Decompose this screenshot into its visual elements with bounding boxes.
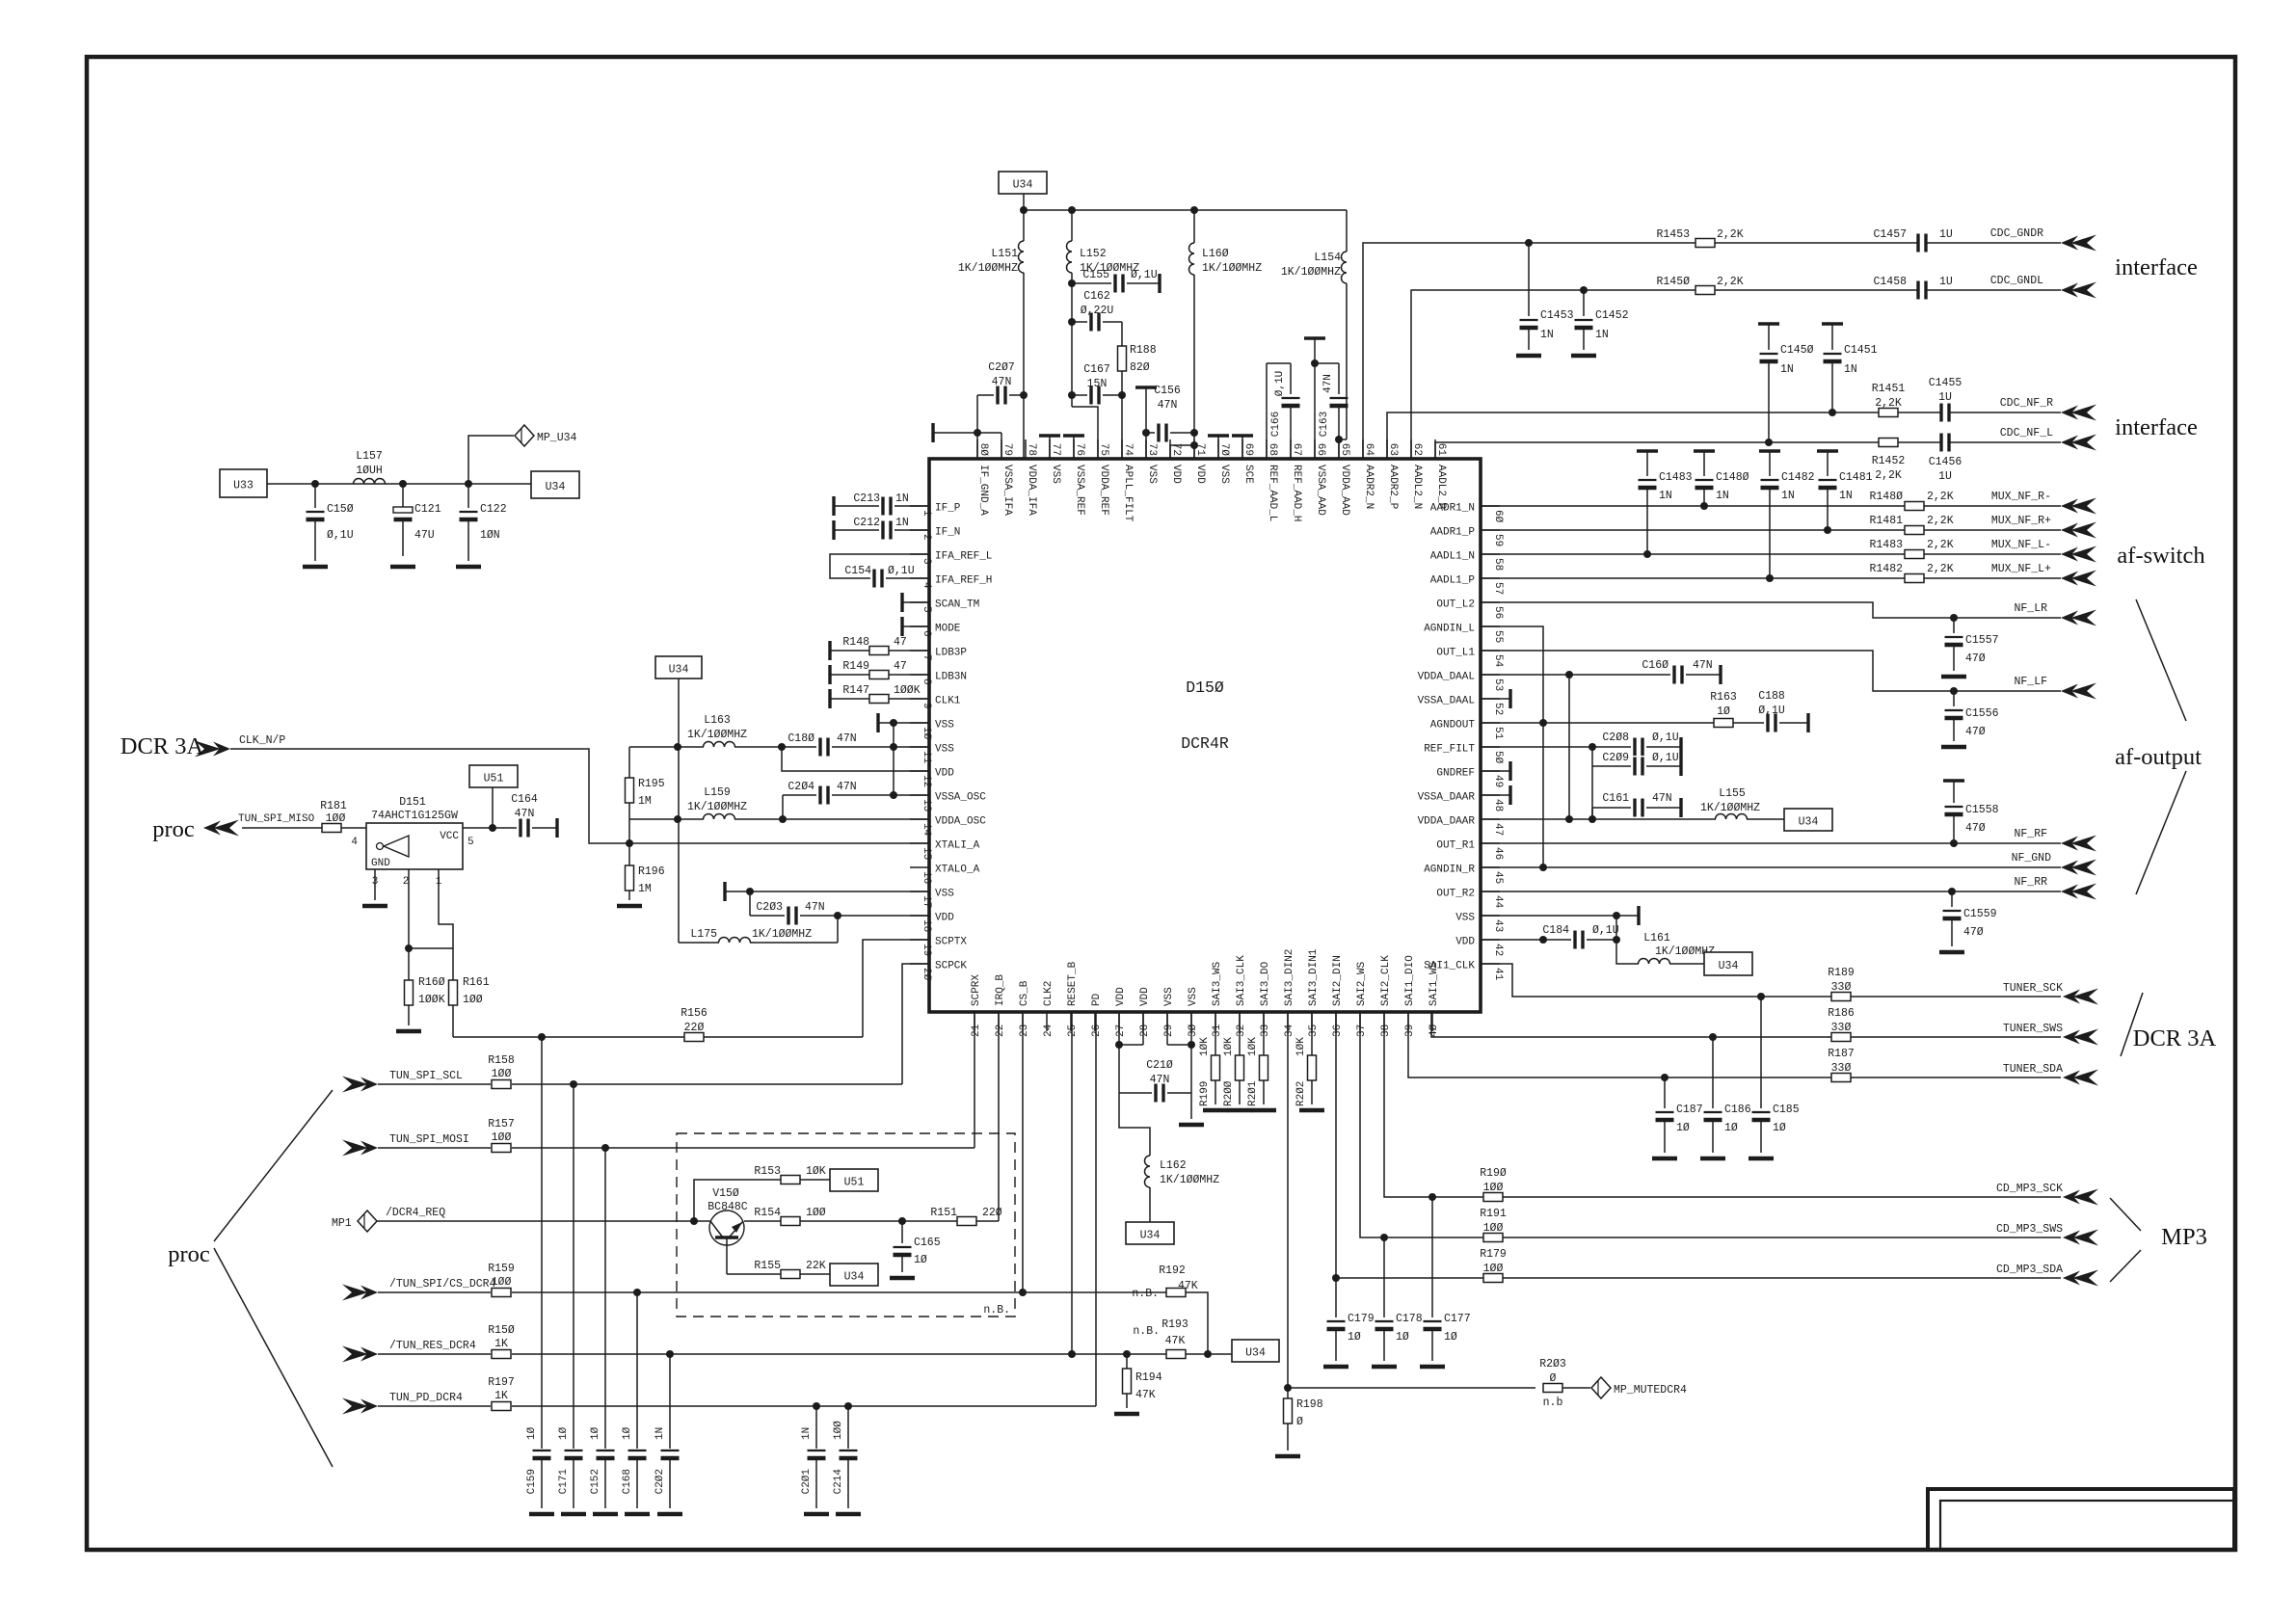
inductor L152 1K/100MHZ [1067, 210, 1140, 407]
svg-text:11: 11 [921, 751, 932, 764]
svg-text:48: 48 [1492, 799, 1504, 811]
svg-text:Ø,1U: Ø,1U [888, 565, 915, 577]
wire CLK_N/P to XTALI_A pin15 [230, 749, 929, 843]
wire /TUN_SPI/CS_DCR4 [512, 1291, 1166, 1293]
node R194 branch [1123, 1350, 1131, 1358]
svg-text:U34: U34 [1245, 1347, 1266, 1360]
svg-text:VSSA_REF: VSSA_REF [1074, 465, 1085, 516]
svg-text:45: 45 [1492, 871, 1504, 884]
svg-text:Ø,22U: Ø,22U [1081, 305, 1114, 317]
svg-text:1ØØ: 1ØØ [492, 1068, 512, 1080]
svg-text:1N: 1N [801, 1427, 813, 1440]
svg-text:1K/1ØØMHZ: 1K/1ØØMHZ [687, 729, 747, 741]
svg-text:PD: PD [1091, 993, 1103, 1006]
inductor L157 10UH [354, 450, 386, 484]
svg-text:47Ø: 47Ø [1965, 726, 1986, 738]
wire NF_GND (pin45 AGNDIN_R) [1481, 866, 2061, 868]
node L151/C207 [1020, 391, 1028, 399]
svg-text:1ØK: 1ØK [806, 1165, 826, 1178]
svg-text:VDD: VDD [935, 913, 954, 924]
svg-text:R187: R187 [1828, 1048, 1855, 1060]
svg-text:R198: R198 [1296, 1398, 1323, 1411]
svg-text:R1483: R1483 [1869, 539, 1903, 551]
svg-text:1Ø: 1Ø [526, 1426, 538, 1440]
svg-text:C148Ø: C148Ø [1716, 471, 1749, 484]
svg-text:C15Ø: C15Ø [327, 503, 354, 516]
svg-text:8Ø: 8Ø [977, 443, 989, 457]
node DAAR C209 [1589, 815, 1596, 823]
capacitor C1451 1N [1822, 324, 1878, 412]
svg-text:1N: 1N [1540, 329, 1554, 341]
svg-text:V15Ø: V15Ø [712, 1187, 739, 1200]
svg-text:U34: U34 [1140, 1230, 1161, 1242]
svg-text:1ØK: 1ØK [1247, 1037, 1259, 1056]
svg-text:LDB3P: LDB3P [935, 648, 967, 659]
terminal VSSA_AAD pin 66 [1304, 338, 1325, 459]
wire D151 pin2 to R160 [408, 869, 410, 948]
capacitor C161 47N [1592, 792, 1681, 819]
svg-text:37: 37 [1356, 1024, 1368, 1037]
svg-text:XTALO_A: XTALO_A [935, 865, 980, 876]
wire TUN_SPI_MOSI [512, 1012, 974, 1148]
terminal C209 [1679, 757, 1682, 776]
wire VDDA_DAAL (pin53) [1481, 674, 1670, 676]
node RES pin25 [1068, 1350, 1076, 1358]
svg-text:VSS: VSS [935, 889, 954, 900]
IC D150 DCR4R [910, 439, 1504, 1037]
node VCC/U51 [489, 824, 496, 832]
svg-text:C188: C188 [1758, 690, 1785, 703]
svg-text:U33: U33 [233, 480, 254, 492]
svg-text:TUNER_SDA: TUNER_SDA [2003, 1063, 2063, 1076]
label TUNER_SDA [2003, 1063, 2063, 1076]
capacitor C1481 1N [1817, 451, 1873, 530]
wire U34 rail vertical [678, 678, 680, 943]
inductor L161 1K/100MHZ [1616, 932, 1715, 964]
capacitor C188 0,1U [1758, 690, 1808, 733]
svg-text:2Ø: 2Ø [921, 968, 932, 981]
svg-text:L151: L151 [991, 248, 1018, 260]
svg-text:Ø,1U: Ø,1U [327, 529, 354, 542]
label CDC_GNDR [1990, 227, 2043, 240]
resistor R1452 2,2K [1872, 439, 1906, 483]
svg-text:6Ø: 6Ø [1492, 510, 1504, 523]
svg-text:VSS: VSS [1163, 987, 1175, 1006]
svg-text:C1452: C1452 [1595, 309, 1629, 322]
svg-text:57: 57 [1492, 582, 1504, 595]
module box U34 (U33 rail) [531, 471, 579, 498]
svg-text:69: 69 [1242, 443, 1254, 456]
svg-text:LDB3N: LDB3N [935, 672, 967, 683]
terminal SCAN_TM pin5 [902, 593, 929, 612]
label NF_GND [2012, 852, 2052, 865]
wire R153 branch [694, 1180, 781, 1221]
svg-text:C2Ø2: C2Ø2 [654, 1469, 666, 1494]
inductor L159 1K/100MHZ (pin14) [629, 786, 929, 819]
capacitor C1450 1N [1758, 324, 1814, 442]
terminal pin 70 [1208, 436, 1229, 459]
svg-text:12: 12 [921, 775, 932, 787]
svg-text:47K: 47K [1178, 1280, 1198, 1292]
arrow proc MISO [203, 820, 239, 837]
terminal C188 [1806, 713, 1809, 732]
svg-text:1ØØ: 1ØØ [492, 1276, 512, 1289]
svg-text:1U: 1U [1939, 276, 1953, 288]
svg-text:VDD: VDD [1139, 987, 1151, 1006]
node C1451/NF_R [1829, 409, 1836, 416]
svg-text:1N: 1N [1595, 329, 1609, 341]
node C1558/NF_RF [1950, 839, 1958, 847]
capacitor C1452 1N [1571, 290, 1629, 356]
arrow CDC_NF_R [2061, 405, 2096, 421]
wire R156 net [453, 1036, 863, 1038]
arrow TUNER_SCK [2063, 989, 2098, 1005]
node pin 73 [1142, 429, 1150, 437]
svg-text:1N: 1N [654, 1427, 666, 1440]
resistor R193 47K n.B. [1133, 1318, 1188, 1359]
svg-text:GND: GND [371, 858, 390, 869]
svg-text:1ØØ: 1ØØ [1483, 1222, 1504, 1235]
bracket MP3 [2110, 1198, 2141, 1282]
capacitor C163 47N (pins 66-65) [1315, 363, 1349, 459]
svg-text:n.B.: n.B. [983, 1304, 1010, 1317]
svg-text:IF_GND_A: IF_GND_A [977, 465, 989, 516]
svg-text:C18Ø: C18Ø [788, 732, 814, 745]
svg-text:MODE: MODE [935, 624, 961, 635]
svg-text:VDD: VDD [935, 768, 954, 780]
node R198/R203 [1284, 1384, 1292, 1392]
wire TUN_SPI_SCL [512, 1083, 902, 1085]
svg-text:R188: R188 [1130, 344, 1157, 357]
svg-text:Ø,1U: Ø,1U [1758, 705, 1785, 717]
wire TUNER_SWS [1431, 1012, 2061, 1037]
svg-text:36: 36 [1332, 1024, 1344, 1037]
terminal pin 76 [1063, 436, 1084, 459]
svg-text:MP1: MP1 [332, 1217, 352, 1230]
node AGNDIN_R [1539, 864, 1547, 871]
svg-text:AADL1_N: AADL1_N [1430, 551, 1475, 563]
node L152/C167 [1068, 391, 1076, 399]
capacitor C187 10 [1652, 1078, 1703, 1158]
wire R193 to U34 [1208, 1353, 1232, 1355]
label DCR 3A (left) [120, 733, 204, 759]
svg-text:NF_GND: NF_GND [2012, 852, 2052, 865]
svg-text:47K: 47K [1135, 1389, 1156, 1401]
svg-text:67: 67 [1291, 443, 1302, 456]
svg-text:n.b: n.b [1543, 1397, 1563, 1409]
svg-text:NF_LF: NF_LF [2014, 676, 2047, 688]
svg-text:49: 49 [1492, 775, 1504, 787]
svg-text:58: 58 [1492, 558, 1504, 571]
svg-text:74: 74 [1122, 443, 1134, 457]
svg-text:VSSA_OSC: VSSA_OSC [935, 792, 986, 804]
svg-text:R16Ø: R16Ø [418, 976, 445, 989]
svg-text:C159: C159 [526, 1469, 538, 1494]
svg-text:R163: R163 [1710, 691, 1737, 704]
svg-text:47N: 47N [992, 376, 1012, 388]
resistor R181 100 [320, 800, 366, 833]
svg-text:C1456: C1456 [1929, 456, 1962, 468]
terminal C164 [555, 818, 558, 838]
node C150 [311, 480, 319, 488]
label CLK_N/P [239, 734, 285, 747]
inductor L154 1K/100MHZ [1281, 210, 1347, 439]
module box U51 (R153) [830, 1169, 878, 1191]
node MUX_NF_L+ cap [1766, 574, 1774, 582]
ground R198 [1275, 1454, 1300, 1459]
svg-text:22Ø: 22Ø [684, 1022, 705, 1034]
wire top supply bus [1024, 194, 1347, 210]
svg-text:1ØØK: 1ØØK [894, 684, 921, 697]
svg-text:TUN_PD_DCR4: TUN_PD_DCR4 [389, 1392, 463, 1404]
svg-text:AADR2_P: AADR2_P [1387, 465, 1399, 510]
svg-text:C2Ø8: C2Ø8 [1602, 732, 1629, 744]
svg-text:L16Ø: L16Ø [1202, 248, 1229, 260]
svg-text:1ØUH: 1ØUH [356, 465, 383, 477]
arrow CD_MP3_SDA [2063, 1270, 2098, 1287]
wire REF_FILT to VDDA_DAAR [1591, 766, 1593, 819]
svg-text:AGNDIN_L: AGNDIN_L [1424, 624, 1475, 635]
svg-text:76: 76 [1074, 443, 1085, 456]
wire CDC_GNDR (pin64) [1363, 243, 2061, 459]
label af-switch [2117, 543, 2204, 569]
svg-text:R151: R151 [930, 1207, 957, 1219]
svg-text:CDC_NF_L: CDC_NF_L [2000, 427, 2053, 439]
svg-text:DCR4R: DCR4R [1181, 734, 1229, 753]
transistor V150 BC848C [707, 1187, 748, 1274]
resistor R190 100 [1480, 1167, 1507, 1202]
svg-text:1ØØ: 1ØØ [326, 812, 346, 825]
node L152/C162 [1068, 318, 1076, 326]
capacitor C178 10 [1372, 1237, 1423, 1367]
svg-text:R161: R161 [463, 976, 490, 989]
node C178 branch [1380, 1234, 1388, 1241]
resistor R201 10K [1247, 1012, 1276, 1110]
svg-text:52: 52 [1492, 703, 1504, 715]
svg-text:C162: C162 [1083, 290, 1110, 303]
node C171 branch [570, 1080, 577, 1088]
svg-text:AADL2_N: AADL2_N [1411, 465, 1423, 509]
svg-text:1Ø: 1Ø [1396, 1331, 1409, 1344]
svg-text:7: 7 [921, 654, 932, 661]
svg-text:1U: 1U [1938, 470, 1952, 483]
terminal VSS43 [1637, 906, 1640, 925]
inductor L155 1K/100MHZ [1700, 787, 1784, 819]
svg-text:22: 22 [995, 1024, 1006, 1037]
svg-text:SCAN_TM: SCAN_TM [935, 599, 979, 611]
wire NF_RR (pin44 OUT_R2) [1481, 891, 2061, 892]
svg-text:AADL1_P: AADL1_P [1430, 575, 1476, 587]
terminal pin 77 [1039, 436, 1060, 459]
wire NF_RF (pin46 OUT_R1) [1481, 842, 2061, 844]
svg-text:C16Ø: C16Ø [1642, 659, 1669, 672]
arrow CDC_GNDR [2061, 235, 2096, 252]
wire U33 rail [267, 483, 531, 485]
buffer D151 74AHCT1G125GW [351, 796, 473, 888]
arrow NF_RF [2061, 836, 2096, 852]
wire NF_LF (pin54 OUT_L1) [1481, 651, 2061, 691]
svg-text:47N: 47N [1693, 659, 1713, 672]
node C1453 [1525, 239, 1533, 247]
svg-text:R153: R153 [754, 1165, 781, 1178]
svg-text:C1481: C1481 [1839, 471, 1873, 484]
svg-text:AADR1_P: AADR1_P [1430, 527, 1476, 539]
svg-text:13: 13 [921, 799, 932, 811]
arrow TUNER_SWS [2063, 1029, 2098, 1046]
svg-text:75: 75 [1098, 443, 1109, 456]
capacitor C159 10 [526, 1037, 554, 1514]
ground R194 [1114, 1412, 1139, 1417]
node MUX_NF_R+ cap [1824, 526, 1831, 534]
capacitor C212 1N (pin2) [834, 517, 929, 541]
svg-text:SAI1_WS: SAI1_WS [1428, 961, 1440, 1006]
svg-text:78: 78 [1026, 443, 1037, 456]
svg-text:25: 25 [1067, 1024, 1079, 1037]
label CDC_NF_L [2000, 427, 2053, 439]
svg-text:82Ø: 82Ø [1130, 361, 1150, 374]
label af-output [2115, 744, 2202, 770]
svg-text:47Ø: 47Ø [1965, 652, 1986, 665]
svg-text:proc: proc [168, 1241, 210, 1267]
svg-text:IFA_REF_L: IFA_REF_L [935, 551, 992, 563]
test point MP_U34 [468, 425, 577, 484]
resistor R153 10K [754, 1165, 830, 1184]
svg-text:46: 46 [1492, 847, 1504, 860]
svg-text:C1556: C1556 [1965, 707, 1999, 720]
wire pin34 to R198 [1287, 1012, 1289, 1388]
svg-text:1K/1ØØMHZ: 1K/1ØØMHZ [687, 801, 747, 813]
capacitor C1482 1N [1759, 451, 1815, 578]
node pin80 [974, 429, 981, 437]
svg-text:VCC: VCC [440, 831, 459, 842]
resistor R147 100K (pin9) [830, 684, 929, 708]
svg-text:C185: C185 [1773, 1104, 1800, 1116]
svg-text:R159: R159 [488, 1263, 515, 1275]
svg-text:61: 61 [1435, 443, 1447, 457]
svg-text:Ø,1U: Ø,1U [1592, 924, 1619, 937]
svg-text:U34: U34 [1013, 179, 1033, 192]
svg-text:5Ø: 5Ø [1492, 751, 1504, 764]
svg-text:R2Ø3: R2Ø3 [1539, 1358, 1566, 1370]
inductor L175 1K/100MHZ [679, 916, 838, 943]
wire SCPTX pin19 [863, 940, 929, 1037]
svg-text:Ø,1U: Ø,1U [1652, 752, 1679, 764]
svg-text:1Ø: 1Ø [1444, 1331, 1457, 1344]
svg-text:73: 73 [1146, 443, 1158, 456]
svg-text:SAI1_DIO: SAI1_DIO [1404, 955, 1416, 1006]
label TUNER_SWS [2003, 1023, 2063, 1035]
capacitor C207 47N [977, 361, 1024, 406]
capacitor C152 10 [590, 1148, 618, 1514]
svg-text:1K/1ØØMHZ: 1K/1ØØMHZ [958, 262, 1018, 275]
svg-text:C2Ø3: C2Ø3 [756, 901, 783, 914]
svg-text:C1457: C1457 [1873, 228, 1907, 241]
module box U34 (L163 rail) [655, 656, 702, 678]
resistor R203 0 n.b [1539, 1358, 1590, 1409]
node DAAR rail [1565, 815, 1573, 823]
svg-text:L157: L157 [356, 450, 383, 463]
svg-text:2,2K: 2,2K [1927, 491, 1954, 503]
wire R192 to R193 net [1186, 1292, 1208, 1354]
wire pin25 [1071, 1012, 1073, 1354]
svg-text:TUNER_SWS: TUNER_SWS [2003, 1023, 2063, 1035]
svg-text:L152: L152 [1080, 248, 1107, 260]
node C152 branch [601, 1144, 609, 1152]
svg-text:1N: 1N [895, 517, 909, 529]
svg-text:1ØK: 1ØK [1199, 1037, 1211, 1056]
svg-text:TUN_SPI_MOSI: TUN_SPI_MOSI [389, 1133, 469, 1146]
svg-text:CD_MP3_SDA: CD_MP3_SDA [1996, 1264, 2063, 1276]
resistor R1482 2,2K [1869, 563, 1953, 583]
wire VSS43 down [1615, 916, 1617, 940]
capacitor C166 0,1U (pins 68-67) [1267, 363, 1301, 459]
capacitor C1453 1N [1516, 243, 1574, 356]
svg-text:L161: L161 [1643, 932, 1670, 945]
svg-text:CDC_GNDR: CDC_GNDR [1990, 227, 2043, 240]
svg-text:Ø,1U: Ø,1U [1131, 269, 1158, 281]
svg-text:VSS: VSS [1188, 987, 1199, 1006]
svg-text:R1451: R1451 [1872, 383, 1906, 395]
node C177 branch [1428, 1193, 1436, 1201]
svg-text:C2Ø4: C2Ø4 [788, 781, 814, 793]
capacitor C1483 1N [1637, 451, 1693, 554]
svg-text:2,2K: 2,2K [1927, 515, 1954, 527]
capacitor C156 47N [1135, 385, 1194, 443]
svg-text:C212: C212 [853, 517, 880, 529]
resistor R188 820 [1118, 322, 1157, 395]
wire TUNER_SDA [1408, 1012, 2061, 1078]
svg-text:U34: U34 [546, 481, 566, 493]
svg-text:R1482: R1482 [1869, 563, 1903, 575]
svg-text:NF_RR: NF_RR [2014, 876, 2047, 889]
label interface (top) [2115, 254, 2198, 280]
svg-text:n.B.: n.B. [1132, 1288, 1159, 1300]
svg-text:OUT_R2: OUT_R2 [1436, 889, 1475, 900]
svg-text:C1453: C1453 [1540, 309, 1574, 322]
svg-text:SAI3_DO: SAI3_DO [1260, 961, 1271, 1006]
wire R188 to pin 74 [1121, 395, 1123, 459]
svg-text:VDDA_IFA: VDDA_IFA [1026, 465, 1037, 516]
svg-text:1Ø: 1Ø [914, 1254, 927, 1266]
svg-text:C184: C184 [1542, 924, 1569, 937]
svg-text:C161: C161 [1602, 792, 1629, 805]
capacitor C210 47N [1119, 1045, 1191, 1104]
svg-text:VDD: VDD [1115, 987, 1127, 1006]
bracket af-output [2136, 599, 2186, 894]
svg-text:OUT_R1: OUT_R1 [1436, 840, 1475, 852]
svg-text:MUX_NF_L-: MUX_NF_L- [1991, 539, 2051, 551]
svg-text:TUNER_SCK: TUNER_SCK [2003, 982, 2063, 995]
svg-text:NF_RF: NF_RF [2014, 828, 2047, 840]
label CD_MP3_SWS [1996, 1223, 2063, 1236]
svg-text:2,2K: 2,2K [1717, 276, 1744, 288]
svg-text:1Ø: 1Ø [1724, 1122, 1738, 1134]
module box U34 (R193) [1232, 1340, 1279, 1362]
capacitor C167 15N [1072, 363, 1122, 406]
svg-text:C168: C168 [622, 1469, 633, 1494]
node VDD18/L175 [834, 912, 841, 919]
resistor R154 100 [744, 1207, 957, 1226]
svg-text:33Ø: 33Ø [1831, 1022, 1852, 1034]
svg-text:7Ø: 7Ø [1218, 443, 1230, 457]
svg-text:C2Ø9: C2Ø9 [1602, 752, 1629, 764]
svg-text:2,2K: 2,2K [1927, 539, 1954, 551]
arrow CDC_NF_L [2061, 435, 2096, 451]
node L163/U34 rail [674, 743, 681, 751]
svg-text:1ØØ: 1ØØ [463, 994, 483, 1006]
wire MUX_NF_R+ [1481, 529, 2061, 531]
svg-text:R2Ø1: R2Ø1 [1247, 1080, 1259, 1106]
